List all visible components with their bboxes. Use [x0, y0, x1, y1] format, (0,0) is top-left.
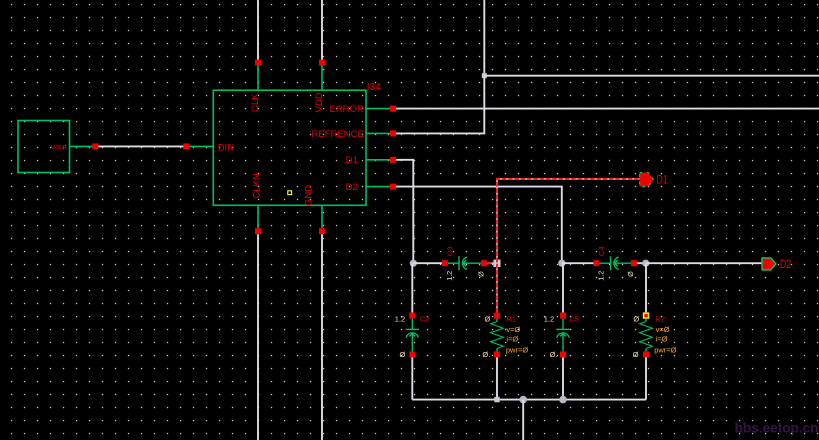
output pin D2	[762, 258, 792, 271]
wire to D2 arrow	[646, 262, 763, 264]
svg-text:1.2: 1.2	[395, 315, 405, 324]
svg-text:Ø.: Ø.	[550, 350, 558, 359]
origin marker	[288, 191, 292, 195]
pin square D1	[390, 157, 396, 163]
svg-text:C5: C5	[569, 315, 579, 324]
svg-text:Ø.: Ø.	[482, 350, 490, 359]
svg-text:vout: vout	[51, 141, 68, 151]
pin square DIN	[183, 143, 189, 149]
svg-text:REFRENCE: REFRENCE	[312, 129, 364, 140]
resistor R1	[482, 313, 528, 360]
svg-text:I34: I34	[367, 82, 381, 93]
wire to C4	[562, 262, 597, 264]
wire bottom rail	[412, 399, 646, 401]
wire C4 to node	[637, 262, 646, 264]
net D1 dashed wire	[497, 179, 640, 313]
wire bottom center down	[522, 400, 524, 440]
svg-text:i=Ø: i=Ø	[656, 334, 668, 343]
wire ERROR	[396, 108, 819, 110]
wire D2 pin	[396, 187, 562, 264]
svg-text:v=Ø: v=Ø	[656, 325, 670, 334]
wire C2 lower	[411, 357, 413, 399]
capacitor C4	[593, 246, 637, 280]
wire GND down	[321, 234, 323, 440]
wire VDD feed from top	[321, 0, 323, 60]
svg-text:C4: C4	[597, 246, 606, 256]
svg-text:1.2: 1.2	[597, 271, 606, 281]
node bottom center	[519, 396, 527, 404]
svg-text:pwr=Ø: pwr=Ø	[654, 345, 676, 354]
svg-text:D2: D2	[346, 182, 358, 193]
node C5 bottom	[559, 396, 567, 404]
junction square R1 bottom	[494, 397, 499, 402]
svg-text:v=Ø: v=Ø	[506, 325, 520, 334]
svg-text:GND: GND	[303, 185, 314, 206]
svg-text:ERROR: ERROR	[329, 104, 363, 115]
wire C5 upper	[562, 263, 564, 312]
wire CLKN down	[257, 234, 259, 440]
svg-text:Ø: Ø	[484, 315, 490, 324]
svg-text:CLKN: CLKN	[251, 173, 262, 198]
pin square ERROR	[390, 106, 396, 112]
capacitor C5	[544, 313, 579, 359]
output pin D1	[640, 173, 668, 187]
svg-text:i=Ø: i=Ø	[506, 334, 518, 343]
junction square top	[482, 73, 487, 78]
wire R1 lower	[496, 357, 498, 399]
svg-text:VDD: VDD	[314, 92, 325, 112]
svg-text:R1: R1	[506, 315, 516, 324]
wire top right	[484, 75, 819, 77]
pin square REFRENCE	[390, 130, 396, 136]
svg-text:1.2: 1.2	[544, 315, 554, 324]
wire R2 lower	[645, 357, 647, 399]
svg-text:D1: D1	[346, 155, 358, 166]
IC block I34	[189, 63, 390, 229]
wire stub dashed to marker	[487, 262, 494, 264]
svg-text:pwr=Ø: pwr=Ø	[506, 345, 528, 354]
wire D1 pin	[396, 160, 413, 263]
pin square GND	[319, 228, 325, 234]
wire REFRENCE	[396, 0, 484, 133]
svg-text:D1: D1	[656, 174, 668, 186]
crossover marker	[493, 260, 500, 267]
wire CLK feed from top	[257, 0, 259, 60]
svg-text:Ø: Ø	[400, 350, 406, 359]
wire R2 upper	[645, 263, 647, 312]
resistor R2	[633, 312, 677, 359]
svg-text:C2: C2	[420, 315, 430, 324]
wire to C3	[413, 262, 445, 264]
svg-text:Ø: Ø	[633, 315, 639, 324]
port vout	[18, 121, 93, 173]
pin square VDD	[319, 60, 325, 66]
node cap row mid	[558, 260, 565, 267]
svg-text:R2: R2	[655, 315, 665, 324]
svg-text:1.2: 1.2	[445, 271, 454, 281]
svg-text:CLK: CLK	[250, 93, 261, 112]
svg-text:Ø: Ø	[633, 350, 639, 359]
svg-text:DIN: DIN	[218, 142, 235, 153]
node cap row left	[410, 260, 417, 267]
svg-text:D2: D2	[780, 259, 792, 271]
svg-text:C3: C3	[445, 246, 454, 256]
pin square D2	[390, 184, 396, 190]
wire C2 upper	[411, 263, 413, 312]
node cap row right	[642, 260, 649, 267]
capacitor C3	[442, 246, 487, 280]
wire vout to DIN	[95, 145, 186, 147]
pin square CLKN	[255, 228, 261, 234]
pin square CLK	[255, 60, 261, 66]
wire C5 lower	[562, 357, 564, 399]
capacitor C2	[395, 313, 430, 360]
svg-text:Ø: Ø	[626, 271, 635, 277]
pin square vout	[92, 143, 98, 149]
svg-text:Ø: Ø	[477, 271, 486, 277]
